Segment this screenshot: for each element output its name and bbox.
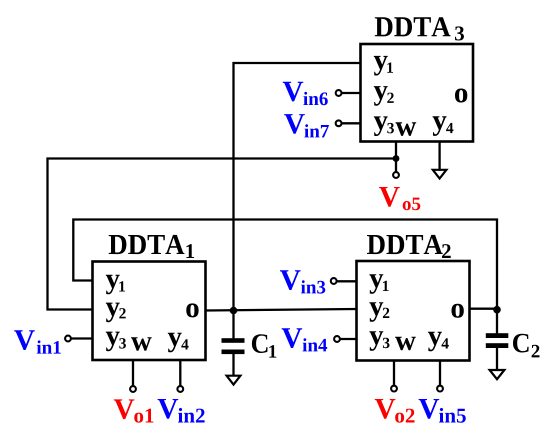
ground symbol at C2 [490, 370, 505, 379]
net label Vin2 [158, 399, 179, 419]
net label Vo5 [379, 187, 400, 207]
U3 pin 3 subscript [387, 123, 394, 133]
wire net Vo5 to DDTA1 y2 [48, 159, 397, 310]
wire DDTA3 y4 to ground [438, 142, 440, 171]
wire DDTA1 y1 feedback to node B [73, 220, 497, 310]
U1 pin 3 subscript [119, 338, 126, 349]
wire Vin6 to DDTA3 y2 [342, 92, 361, 94]
Vin4 subscript [303, 338, 328, 351]
U2 pin label y2 [369, 302, 383, 322]
junction node Vo5 [393, 155, 400, 162]
capacitor C2 bottom plate [486, 343, 509, 348]
terminal Vin7 [336, 120, 342, 126]
U2 pin 3 subscript [383, 338, 390, 349]
terminal Vin3 [331, 278, 337, 284]
U1 pin label y3 [106, 332, 120, 352]
net label Vin5 [419, 399, 440, 419]
wire Vin4 to DDTA2 y3 [340, 338, 357, 340]
U1 pin label y2 [106, 303, 120, 323]
wire Vin3 to DDTA2 y1 [337, 280, 357, 282]
U2 pin 2 subscript [383, 308, 389, 318]
capacitor C1 value label [252, 334, 268, 353]
wire DDTA2 y4 down to Vin5 terminal [439, 361, 441, 386]
U3 pin label y1 [374, 56, 388, 76]
terminal Vin1 [65, 336, 71, 342]
U2 pin label w [395, 337, 416, 351]
wire DDTA3 y1 feedback down to node A [234, 63, 361, 311]
terminal Vin4 [334, 336, 340, 342]
U2 title subscript 2 [442, 244, 451, 258]
U2 pin label y4 [428, 332, 442, 352]
wire DDTA2 w down to Vo2 terminal [393, 361, 395, 386]
net label Vin1 [14, 330, 35, 350]
capacitor C2 top plate [486, 333, 509, 338]
Vin5 subscript [439, 408, 466, 423]
terminal Vo1 [130, 386, 136, 392]
U3 title subscript 3 [455, 26, 464, 40]
U2 title DDTA2 [367, 235, 443, 254]
U3 pin label y4 [433, 116, 447, 136]
Vin6 subscript [303, 92, 327, 105]
terminal Vin2 [177, 386, 183, 392]
capacitor C1 top plate [222, 338, 245, 343]
Vin3 subscript [301, 280, 325, 293]
ground symbol at C1 [227, 376, 241, 385]
terminal Vin5 [437, 386, 443, 392]
wire DDTA1 y4 down to Vin2 terminal [179, 360, 181, 386]
terminal Vin6 [336, 90, 342, 96]
U1 title DDTA1 [109, 235, 185, 254]
wire C2 to ground [496, 348, 498, 371]
U1 pin 2 subscript [119, 308, 125, 318]
Vo5 subscript [403, 198, 421, 211]
wire node B down to C2 [496, 310, 498, 334]
net label Vin4 [282, 328, 303, 348]
C2 subscript 2 [532, 345, 540, 358]
wire DDTA2 o to node B [470, 308, 498, 310]
capacitor C1 bottom plate [222, 350, 245, 355]
wire C1 to ground [232, 354, 234, 376]
U2 pin 4 subscript [442, 338, 449, 348]
U2 pin label y3 [369, 331, 383, 351]
U3 pin 1 subscript [387, 63, 393, 73]
net label Vin7 [284, 114, 305, 134]
op-amp U1 DDTA1 box [93, 262, 206, 361]
terminal Vo5 [393, 172, 399, 178]
net label Vin3 [280, 270, 301, 290]
net label Vin6 [283, 82, 304, 102]
net label Vo2 [375, 399, 396, 419]
U2 pin label o [452, 304, 464, 318]
U1 pin label w [131, 337, 152, 351]
junction node B [493, 306, 501, 314]
U3 pin 4 subscript [446, 123, 453, 133]
junction node A [230, 307, 238, 315]
ground symbol at DDTA3 y4 [433, 170, 447, 179]
U1 pin 4 subscript [181, 339, 188, 349]
wire Vin1 to DDTA1 y3 [71, 337, 93, 339]
Vo1 subscript [134, 409, 153, 423]
U3 pin 2 subscript [387, 93, 393, 103]
wire node A down to C1 [232, 311, 234, 339]
wire DDTA3 w down to Vo5 terminal [395, 142, 397, 173]
U1 pin label y1 [106, 275, 120, 295]
U1 title subscript 1 [186, 244, 194, 258]
U3 pin label y2 [374, 86, 388, 106]
wire Vin7 to DDTA3 y3 [342, 122, 361, 124]
Vin7 subscript [304, 124, 329, 137]
op-amp U3 DDTA3 box [361, 44, 474, 142]
capacitor C2 value label [513, 334, 529, 353]
Vin2 subscript [178, 408, 205, 423]
C1 subscript 1 [269, 345, 276, 358]
U3 pin label w [396, 122, 417, 136]
U2 pin label y1 [369, 274, 383, 294]
net label Vo1 [114, 399, 135, 419]
U3 pin label o [455, 89, 467, 103]
U2 pin 1 subscript [383, 281, 389, 291]
U3 pin label y3 [374, 116, 388, 136]
terminal Vo2 [391, 386, 397, 392]
op-amp U2 DDTA2 box [357, 261, 470, 361]
wire node A: DDTA1 o to DDTA2 y2 [206, 309, 357, 311]
U1 pin label y4 [168, 333, 182, 353]
Vin1 subscript [37, 340, 61, 353]
wire DDTA1 w down to Vo1 terminal [132, 360, 134, 386]
Vo2 subscript [395, 409, 414, 423]
U1 pin label o [186, 303, 198, 317]
U1 pin 1 subscript [119, 281, 125, 291]
U3 title DDTA3 [375, 17, 451, 36]
